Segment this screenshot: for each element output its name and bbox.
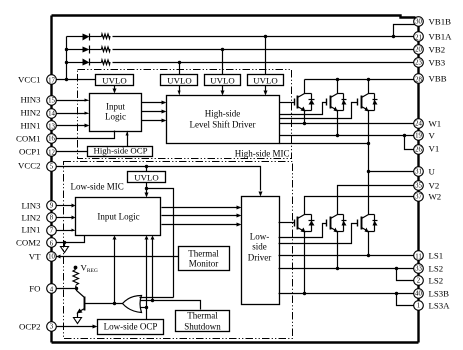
wire hs gate3 (280, 103, 358, 119)
resistor R2 bootstrap row2 (102, 47, 111, 52)
node W1 emitter junction (303, 122, 306, 125)
svg-text:13: 13 (48, 124, 55, 131)
transistor Q4 emitter (78, 309, 85, 313)
svg-text:COM1: COM1 (16, 134, 40, 144)
wire HIN3 to input logic (56, 100, 86, 102)
package outline bottom edge (52, 341, 419, 343)
wire input logic to low-side driver 1 (162, 207, 237, 209)
wire VCC2 to low-side UVLO (146, 167, 148, 172)
svg-text:Input: Input (106, 102, 125, 112)
pin 3 OCP2 (47, 322, 57, 332)
wire Q2 collector (337, 80, 339, 94)
svg-text:VBB: VBB (429, 74, 447, 84)
svg-text:VCC2: VCC2 (18, 161, 41, 171)
diode D1 bootstrap row1 (83, 34, 90, 41)
wire LIN2 to input logic (56, 217, 72, 219)
svg-text:2: 2 (417, 278, 421, 285)
svg-text:UVLO: UVLO (134, 173, 158, 183)
wire UVLO2 to driver arrow (179, 86, 181, 92)
transistor Q3 high-side U-phase IGBT (358, 94, 378, 112)
node bootstrap tap wire3 (65, 61, 68, 64)
wire input logic to driver 1 (142, 102, 162, 104)
wire high-side OCP to input logic arrow (127, 135, 129, 147)
svg-text:VB1B: VB1B (429, 17, 452, 27)
pin 19 V (414, 131, 424, 141)
wire COM2 to input logic (56, 236, 85, 243)
svg-text:26: 26 (415, 147, 422, 154)
svg-text:10: 10 (48, 254, 55, 261)
svg-text:11: 11 (415, 254, 422, 261)
svg-text:9: 9 (50, 203, 54, 210)
UVLO block U3 (205, 75, 241, 86)
wire LS3B line (279, 293, 415, 295)
wire bootstrap row2 to VB2 pin (113, 49, 415, 51)
wire Q5 emitter to LS3B (304, 232, 306, 294)
wire ls gate3 (279, 224, 358, 244)
svg-text:30: 30 (415, 19, 422, 26)
svg-text:LIN2: LIN2 (21, 213, 40, 223)
wire Q7 emitter to LS1 (368, 232, 370, 256)
svg-text:LS2: LS2 (429, 276, 444, 286)
node Q3 collector rail junction (367, 78, 370, 81)
UVLO block U1 (VCC1) (96, 75, 134, 86)
node row1 VB1B branch (392, 35, 395, 38)
wire V1 branch (405, 136, 415, 150)
wire LS2 second pin branch (397, 269, 415, 281)
wire COM1 to input logic (56, 131, 115, 139)
wire input logic to driver 3 (142, 120, 162, 122)
wire OCP1 to high-side OCP (56, 151, 88, 153)
wire LS1 line (279, 255, 415, 257)
wire ls gate2 (279, 224, 327, 238)
wire Q1 collector (304, 80, 306, 94)
svg-text:Logic: Logic (105, 112, 126, 122)
wire UVLO1 to input logic arrow (114, 86, 116, 90)
svg-text:W2: W2 (429, 192, 442, 202)
transistor Q2 high-side V-phase IGBT (327, 94, 347, 112)
pin 4 FO (47, 284, 57, 294)
pin 24 W1 (414, 119, 424, 129)
wire D2 to R2 (90, 49, 102, 51)
wire U line to pin (369, 171, 415, 173)
svg-text:20: 20 (415, 47, 422, 54)
wire D3 to R3 (90, 62, 102, 64)
transistor Q5 low-side W-phase IGBT (295, 215, 315, 233)
wire hs gate1 (280, 102, 295, 104)
svg-text:LS2: LS2 (429, 264, 444, 274)
wire UVLO3 to driver arrow (222, 86, 224, 92)
svg-text:UVLO: UVLO (167, 76, 191, 86)
node LS2 pin branch junction (395, 267, 398, 270)
svg-text:37: 37 (415, 194, 422, 201)
wire OR input A from UVLO (140, 297, 174, 299)
package outline top edge (52, 16, 416, 18)
wire Q3 emitter down to low-side collector (368, 111, 370, 215)
pin 26 V1 (414, 145, 424, 155)
pin 17 VCC1 (47, 75, 57, 85)
svg-text:UVLO: UVLO (102, 76, 126, 86)
node COM2 ground junction (63, 241, 66, 244)
svg-text:High-side: High-side (205, 109, 241, 119)
svg-text:6: 6 (50, 241, 54, 248)
package outline right edge (417, 21, 419, 343)
wire VB1B branch (394, 25, 416, 37)
svg-text:High-side OCP: High-side OCP (93, 146, 147, 156)
node U reference junction (367, 142, 370, 145)
svg-text:W1: W1 (429, 119, 442, 129)
svg-text:33: 33 (415, 266, 422, 273)
node bootstrap tap wire2 (65, 48, 68, 51)
node LS3B emitter junction (303, 292, 306, 295)
high-side level shift driver block (167, 96, 280, 144)
svg-text:40: 40 (415, 291, 422, 298)
svg-text:LS1: LS1 (429, 251, 444, 261)
node FO pullup junction (75, 287, 78, 290)
pin 33 LS2 (414, 264, 424, 274)
wire Q5 collector to W2 line (305, 197, 415, 215)
UVLO block U4 (248, 75, 284, 86)
wire ls gate1 (279, 222, 295, 224)
svg-text:15: 15 (48, 98, 55, 105)
wire OR input C from OCP (141, 307, 147, 309)
pin 13 HIN1 (47, 121, 57, 131)
pin 20 VB2 (414, 45, 424, 55)
svg-text:side: side (252, 242, 267, 252)
resistor R3 bootstrap row3 (102, 60, 111, 65)
ground Q4 emitter (74, 318, 82, 324)
node LS2 emitter junction (336, 267, 339, 270)
wire Q6 emitter to LS2 (337, 232, 339, 269)
pin 8 LIN2 (47, 213, 57, 223)
svg-text:UVLO: UVLO (210, 76, 234, 86)
wire bootstrap row3 anode segment (67, 62, 83, 64)
pin 16 COM1 (47, 134, 57, 144)
svg-text:5: 5 (50, 164, 54, 171)
pin 31 U (414, 167, 424, 177)
OR gate fault logic (123, 296, 142, 313)
wire LIN1 to input logic (56, 230, 72, 232)
node U line junction (367, 170, 370, 173)
wire HIN1 to input logic (56, 125, 86, 127)
svg-text:COM2: COM2 (16, 238, 40, 248)
node FO feedback junction (113, 302, 116, 305)
transistor Q1 high-side W-phase IGBT (295, 94, 315, 112)
svg-text:16: 16 (48, 136, 55, 143)
wire input logic to low-side driver 3 (162, 224, 237, 226)
wire row3 to UVLO2 (179, 63, 181, 75)
node LS3B pin branch junction (395, 292, 398, 295)
pin 35 V2 (414, 181, 424, 191)
resistor R4 FO pullup (73, 270, 79, 286)
svg-text:8: 8 (50, 215, 54, 222)
ground COM2 (61, 247, 69, 253)
pin 30 VB1B (414, 17, 424, 27)
wire COM2 ground stub (64, 243, 66, 247)
node VCC2 UVLO tap (145, 165, 148, 168)
svg-text:1: 1 (417, 303, 420, 310)
svg-text:HIN1: HIN1 (20, 121, 40, 131)
node low-side UVLO fault branch (145, 187, 148, 190)
svg-text:7: 7 (50, 228, 54, 235)
transistor Q7 low-side U-phase IGBT (358, 215, 378, 233)
node row1 UVLO4 tap (264, 35, 267, 38)
node V to V1 branch junction (403, 134, 406, 137)
pin 1 LS3A (414, 301, 424, 311)
svg-text:Monitor: Monitor (189, 259, 219, 269)
svg-text:OCP2: OCP2 (19, 322, 41, 332)
pin 10 VT (47, 252, 57, 262)
node V emitter junction (336, 134, 339, 137)
svg-text:UVLO: UVLO (253, 76, 277, 86)
pin 14 HIN2 (47, 109, 57, 119)
pin 12 OCP1 (47, 147, 57, 157)
svg-text:High-side MIC: High-side MIC (235, 149, 290, 159)
svg-text:V2: V2 (429, 181, 440, 191)
svg-text:Low-side MIC: Low-side MIC (71, 182, 124, 192)
svg-text:LIN3: LIN3 (21, 201, 41, 211)
wire UVLO fault branch to OR gate (147, 189, 174, 298)
svg-text:VB3: VB3 (429, 58, 446, 68)
svg-text:HIN2: HIN2 (20, 108, 40, 118)
svg-text:V: V (429, 131, 436, 141)
wire bootstrap feed vertical (66, 37, 68, 80)
svg-text:LS3B: LS3B (429, 289, 450, 299)
svg-text:FO: FO (29, 284, 40, 294)
svg-text:OCP1: OCP1 (19, 147, 41, 157)
diode D3 bootstrap row3 (83, 59, 90, 66)
svg-text:LS3A: LS3A (429, 301, 451, 311)
pin 15 HIN3 (47, 96, 57, 106)
svg-text:VT: VT (29, 252, 41, 262)
wire D1 to R1 (90, 36, 102, 38)
svg-text:VCC1: VCC1 (18, 75, 41, 85)
wire row2 to UVLO3 (222, 50, 224, 75)
wire OCP2 to low-side OCP arrow (56, 326, 93, 328)
node row3 UVLO2 tap (178, 61, 181, 64)
low-side MIC boundary (64, 162, 293, 339)
wire Q4 emitter to ground (77, 313, 79, 318)
svg-text:Thermal: Thermal (188, 249, 219, 259)
wire LIN3 to input logic (56, 205, 72, 207)
wire LS3A branch (397, 294, 415, 306)
wire LS2 line (279, 268, 415, 270)
svg-text:VB1A: VB1A (429, 32, 453, 42)
wire input logic to low-side driver 2 (162, 215, 237, 217)
transistor Q6 low-side V-phase IGBT (327, 215, 347, 233)
wire bootstrap row1 to VB1A pin (113, 36, 415, 38)
low-side driver block (242, 197, 280, 305)
svg-text:Thermal: Thermal (187, 311, 218, 321)
wire UVLO4 to driver arrow (265, 86, 267, 92)
svg-text:Input Logic: Input Logic (97, 212, 139, 222)
UVLO block U5 low-side (128, 172, 166, 183)
svg-text:V1: V1 (429, 144, 440, 154)
transistor Q4 fault NPN collector (77, 289, 85, 298)
svg-text:3: 3 (50, 324, 54, 331)
wire VBB collector rail (305, 79, 415, 81)
wire HIN2 to input logic (56, 113, 86, 115)
pin 11 LS1 (414, 251, 424, 261)
pin 23 VB3 (414, 58, 424, 68)
pin 2 LS2 (414, 276, 424, 286)
svg-text:HIN3: HIN3 (20, 95, 41, 105)
svg-text:VB2: VB2 (429, 45, 446, 55)
wire bootstrap row1 anode segment (67, 36, 83, 38)
pin 9 LIN3 (47, 201, 57, 211)
wire FO feedback to input logic arrow (114, 240, 116, 304)
transistor Q4 base wire from OR gate (85, 303, 123, 305)
svg-text:12: 12 (48, 150, 55, 157)
pin 37 W2 (414, 192, 424, 202)
wire Q2 emitter to V (337, 111, 339, 136)
svg-text:17: 17 (48, 78, 55, 85)
wire FO line (56, 288, 77, 290)
wire Q1 emitter to W1 (304, 111, 306, 124)
node row2 UVLO3 tap (221, 48, 224, 51)
UVLO block U2 (161, 75, 198, 86)
pin 28 VBB (414, 74, 424, 84)
thermal monitor block (179, 247, 230, 271)
pin 7 LIN1 (47, 226, 57, 236)
svg-text:14: 14 (48, 111, 55, 118)
node VREG terminal (74, 266, 78, 270)
wire VCC1 pin to UVLO1 (56, 79, 96, 81)
wire low-side UVLO to input logic arrow (146, 183, 148, 194)
svg-text:21: 21 (415, 35, 422, 42)
package outline left edge (50, 16, 52, 343)
low-side input logic block (76, 198, 161, 236)
high-side MIC boundary (78, 70, 292, 159)
wire bootstrap row2 anode segment (67, 49, 83, 51)
wire R4 top stub (75, 268, 77, 270)
low-side OCP block (98, 320, 164, 335)
wire bootstrap row3 to VB3 pin (113, 62, 415, 64)
svg-text:Low-: Low- (250, 232, 270, 242)
thermal shutdown block (176, 311, 230, 332)
pin 6 COM2 (47, 238, 57, 248)
node Q2 collector rail junction (336, 78, 339, 81)
wire V line (280, 135, 415, 137)
wire OCP signal to input logic arrow (146, 240, 148, 320)
diode D2 bootstrap row2 (83, 47, 90, 53)
wire hs gate2 (280, 103, 327, 115)
transistor Q4 body bar (84, 297, 86, 311)
resistor R1 bootstrap row1 (102, 34, 111, 39)
svg-text:U: U (429, 167, 436, 177)
node VCC1 bootstrap junction (65, 78, 68, 81)
wire Q6 collector to V2 line (338, 186, 415, 215)
svg-text:Driver: Driver (248, 253, 272, 263)
node OR input B TSD junction (151, 299, 154, 302)
wire Q3 collector (368, 80, 370, 94)
wire VCC2 line (56, 167, 261, 191)
wire R4 bottom to FO node (76, 286, 77, 289)
wire OR input B from thermal shutdown (141, 301, 201, 310)
wire U reference from driver (280, 143, 369, 145)
high-side input logic block (90, 94, 142, 132)
svg-text:Low-side OCP: Low-side OCP (104, 322, 158, 332)
wire W1 line (280, 123, 415, 125)
wire row1 to UVLO4 (265, 37, 267, 75)
node OR input C OCP junction (145, 306, 148, 309)
high-side OCP block (88, 147, 153, 157)
svg-text:31: 31 (415, 169, 422, 176)
svg-text:4: 4 (50, 287, 54, 294)
node LS1 emitter junction (367, 254, 370, 257)
pin 40 LS3B (414, 289, 424, 299)
svg-text:24: 24 (415, 121, 422, 128)
svg-text:Level Shift Driver: Level Shift Driver (190, 120, 256, 130)
pin 5 VCC2 (47, 162, 57, 172)
svg-text:35: 35 (415, 183, 422, 190)
svg-text:23: 23 (415, 60, 422, 67)
svg-text:LIN1: LIN1 (21, 225, 40, 235)
svg-text:Shutdown: Shutdown (184, 322, 221, 332)
svg-text:28: 28 (415, 77, 422, 84)
svg-text:19: 19 (415, 133, 422, 140)
wire VT line to thermal monitor (57, 256, 179, 258)
pin 21 VB1A (414, 32, 424, 42)
wire input logic to driver 2 (142, 111, 162, 113)
wire TSD signal to input logic arrow (152, 240, 154, 301)
